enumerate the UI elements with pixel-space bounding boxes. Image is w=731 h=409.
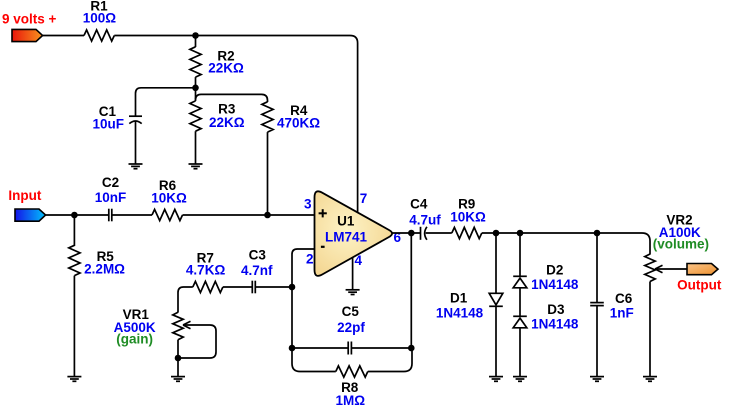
resistor R8 [336, 366, 368, 377]
wire R4 to non-inverting input node [267, 132, 269, 215]
resistor R6 [152, 209, 183, 220]
svg-text:22KΩ: 22KΩ [208, 61, 244, 76]
wire C6 [596, 233, 598, 303]
svg-text:10uF: 10uF [92, 116, 124, 131]
ground C6 [590, 377, 604, 382]
plus input marking [319, 209, 327, 217]
junction D2 node [517, 230, 524, 237]
diode D2 [513, 276, 527, 288]
VR2 wiper arrowhead [655, 265, 663, 272]
svg-text:Output: Output [677, 278, 722, 293]
wire pin6 node down to feedback [410, 233, 412, 348]
wire R5 to ground [73, 276, 75, 377]
ground D1 [489, 377, 503, 382]
svg-text:10KΩ: 10KΩ [450, 210, 486, 225]
svg-text:LM741: LM741 [325, 230, 368, 245]
svg-text:4: 4 [355, 253, 363, 268]
wire D3 to ground [519, 328, 521, 377]
wire C4 to R9 [426, 232, 452, 234]
wire C5 right [352, 347, 412, 349]
svg-text:22pf: 22pf [337, 320, 365, 335]
resistor R9 [452, 227, 482, 238]
resistor R1 [84, 30, 114, 41]
junction feedback left [289, 345, 296, 352]
junction bias node [192, 85, 199, 92]
svg-text:C4: C4 [410, 197, 428, 212]
ground C1 [129, 164, 143, 169]
svg-text:1MΩ: 1MΩ [336, 393, 366, 408]
svg-text:Input: Input [8, 188, 41, 203]
svg-text:C5: C5 [342, 304, 360, 319]
junction input node [71, 212, 78, 219]
svg-text:C3: C3 [249, 248, 267, 263]
junction D1 node [493, 230, 500, 237]
capacitor C5 [348, 342, 351, 355]
junction VR1 bottom [175, 355, 182, 362]
ground D3 [513, 377, 527, 382]
wire junction to R2 [195, 36, 197, 48]
wire VR2 to ground [649, 282, 651, 377]
junction pin3 node [264, 212, 271, 219]
wire C6 to ground [596, 306, 598, 377]
wire R2 to bias node [195, 77, 197, 101]
ground VR1 [171, 377, 185, 382]
svg-text:U1: U1 [337, 214, 355, 229]
svg-text:10nF: 10nF [95, 190, 127, 205]
VR2 wiper arm [656, 268, 687, 270]
wire VR1 to ground [177, 340, 179, 377]
resistor R4 [262, 102, 273, 132]
wire C2 to R6 [113, 214, 153, 216]
ground VR2 [643, 377, 657, 382]
wire Input to C2 [46, 214, 108, 216]
capacitor C4 [421, 227, 427, 240]
svg-text:7: 7 [360, 191, 368, 206]
capacitor C3 [252, 281, 255, 294]
svg-text:1nF: 1nF [610, 306, 634, 321]
wire R1 to V+ rail corner, down to pin 7 [114, 36, 357, 214]
wire D1 [495, 233, 497, 294]
wire R7 to C3 [223, 286, 252, 288]
svg-text:3: 3 [304, 197, 312, 212]
svg-text:4.7nf: 4.7nf [241, 263, 273, 278]
junction C6 node [594, 230, 601, 237]
op-amp U1 body [315, 191, 393, 276]
svg-text:4.7uf: 4.7uf [409, 212, 441, 227]
wire bias node to C1 [136, 88, 196, 116]
svg-text:4.7KΩ: 4.7KΩ [186, 263, 226, 278]
svg-text:C2: C2 [102, 175, 119, 190]
Input connector [15, 209, 46, 221]
wire D2 to D3 [519, 288, 521, 317]
svg-text:(volume): (volume) [653, 237, 709, 252]
svg-text:9 volts +: 9 volts + [2, 12, 57, 27]
wire D1 to ground [495, 306, 497, 376]
svg-text:22KΩ: 22KΩ [209, 115, 245, 130]
junction V+ rail [192, 32, 199, 39]
wire R6 to op-amp pin 3 [183, 214, 317, 216]
resistor R2 [190, 47, 201, 77]
minus input marking [321, 246, 325, 248]
resistor R3 [190, 101, 201, 131]
wire bias node to R4 [196, 94, 268, 102]
wire input node to R5 [73, 215, 75, 246]
wire pin 2 to feedback rail [292, 249, 315, 348]
svg-text:100Ω: 100Ω [83, 11, 117, 26]
svg-text:D1: D1 [450, 291, 468, 306]
wire 9V to R1 [43, 35, 84, 37]
svg-text:1N4148: 1N4148 [531, 277, 579, 292]
junction pin6 node [408, 230, 415, 237]
svg-text:D3: D3 [547, 302, 565, 317]
9V supply connector [12, 29, 43, 41]
potentiometer VR2 element [645, 254, 655, 282]
wire pin 6 to C4 [392, 232, 420, 234]
resistor R5 [69, 245, 80, 275]
capacitor C1 [129, 116, 142, 123]
wire R3 to ground [195, 131, 197, 164]
svg-text:1N4148: 1N4148 [531, 317, 579, 332]
wire C3 to junction [256, 286, 292, 288]
capacitor C6 [590, 303, 604, 306]
capacitor C2 [109, 209, 112, 222]
svg-text:2: 2 [306, 252, 314, 267]
resistor R8 loop left [292, 348, 336, 372]
svg-text:C6: C6 [615, 291, 633, 306]
diode D3 [513, 316, 527, 328]
resistor R8 loop right [368, 348, 412, 372]
wire C1 to ground [135, 121, 137, 164]
wire R9 to output network [482, 233, 650, 255]
svg-text:(gain): (gain) [116, 332, 153, 347]
diode D1 [489, 293, 503, 306]
junction C3 node [289, 284, 296, 291]
wire D2 [519, 233, 521, 276]
ground R5 [67, 377, 81, 382]
junction feedback right [408, 345, 415, 352]
ground pin 4 [346, 290, 360, 295]
ground R3 [189, 164, 203, 169]
svg-text:1N4148: 1N4148 [436, 305, 484, 320]
potentiometer VR1 element [173, 312, 183, 339]
svg-text:2.2MΩ: 2.2MΩ [84, 261, 125, 276]
wire C5 left [292, 347, 348, 349]
resistor R7 [193, 281, 223, 292]
wire R7 to VR1 [178, 287, 193, 313]
VR1 wiper arrowhead [183, 321, 191, 328]
svg-text:D2: D2 [546, 262, 563, 277]
wire pin 4 to ground [352, 250, 354, 290]
svg-text:470KΩ: 470KΩ [277, 116, 320, 131]
Output connector [687, 264, 718, 275]
VR1 wiper arm loop [178, 325, 216, 358]
svg-text:10KΩ: 10KΩ [151, 190, 187, 205]
